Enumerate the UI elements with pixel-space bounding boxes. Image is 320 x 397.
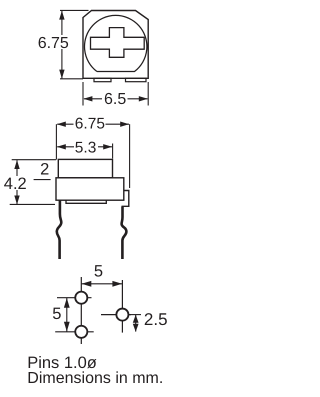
svg-text:6.75: 6.75	[38, 35, 69, 52]
svg-text:2: 2	[40, 160, 49, 178]
svg-text:6.5: 6.5	[104, 91, 126, 108]
svg-text:5: 5	[52, 305, 61, 323]
svg-text:6.75: 6.75	[75, 115, 105, 132]
svg-text:5: 5	[94, 262, 103, 280]
svg-text:2.5: 2.5	[144, 310, 168, 329]
svg-text:5.3: 5.3	[75, 139, 97, 156]
svg-text:Dimensions in mm.: Dimensions in mm.	[27, 370, 163, 387]
svg-text:4.2: 4.2	[4, 175, 27, 193]
